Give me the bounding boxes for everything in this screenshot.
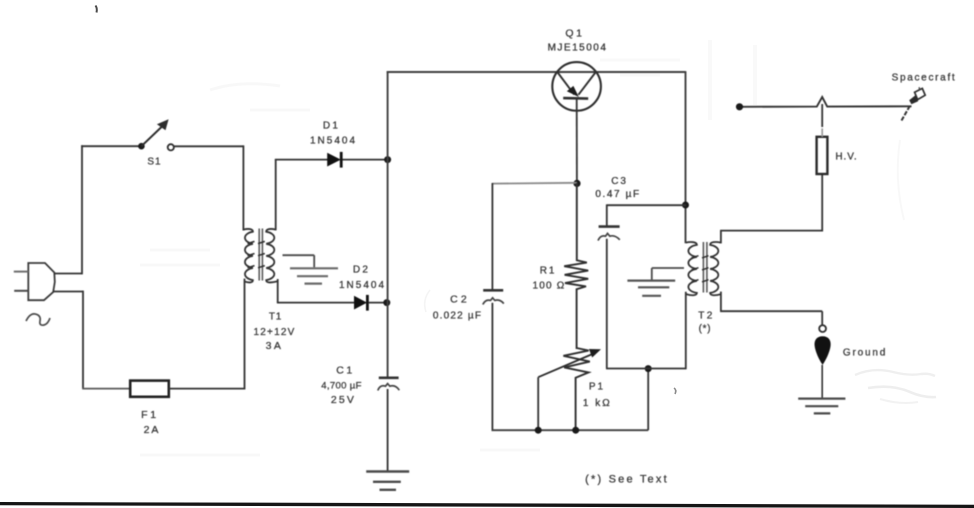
svg-text:25V: 25V: [331, 394, 356, 406]
svg-text:D1: D1: [323, 121, 340, 132]
junction C3 top: [682, 202, 689, 209]
wire base node to C2: [492, 182, 577, 185]
scan noise (decorative): [140, 40, 936, 455]
diode D2: [354, 296, 367, 310]
capacitor C1: [379, 376, 399, 379]
junction wiper-rail: [535, 427, 542, 434]
svg-text:C1: C1: [336, 365, 355, 377]
svg-text:0.022 µF: 0.022 µF: [433, 311, 482, 322]
wire D2 cathode to bus: [369, 302, 388, 304]
capacitor C2: [483, 289, 503, 292]
svg-text:(*): (*): [699, 324, 712, 335]
svg-text:C3: C3: [611, 176, 627, 187]
wire S1 right segment: [174, 145, 244, 147]
wire C2 bottom to rail: [491, 303, 493, 430]
ground at T2 primary: [652, 267, 684, 269]
capacitor C3: [599, 225, 620, 228]
wire lower riser down to fuse rail: [82, 291, 84, 389]
transformer T1 primary winding: [243, 229, 253, 283]
transformer T2 secondary winding: [710, 242, 721, 295]
wire up to HV resistor: [821, 174, 823, 232]
svg-text:H.V.: H.V.: [835, 152, 857, 163]
wire spacecraft line with kink: [740, 97, 912, 107]
svg-text:12+12V: 12+12V: [254, 327, 296, 338]
svg-text:3A: 3A: [266, 340, 284, 352]
wire DC bus vertical: [387, 71, 389, 377]
wire C3 bottom down: [606, 239, 608, 369]
wire HV top lead: [821, 128, 823, 136]
wire T1 secondary top lead to D1: [275, 159, 277, 230]
svg-text:P1: P1: [589, 382, 605, 393]
svg-text:1 kΩ: 1 kΩ: [583, 398, 612, 409]
svg-text:1N5404: 1N5404: [339, 280, 386, 291]
AC tilde symbol: [26, 314, 50, 325]
junction bus-D2: [383, 299, 390, 306]
earth ground symbol: [798, 398, 845, 400]
wire D1 cathode to bus: [343, 159, 389, 161]
svg-text:R1: R1: [540, 266, 556, 277]
junction base node: [573, 180, 580, 187]
resistor HV: [817, 137, 828, 174]
diode D1: [327, 153, 341, 167]
junction left end dot: [736, 103, 743, 110]
transformer T2 primary winding: [686, 242, 697, 295]
wire plug-bottom to lower riser: [53, 291, 83, 293]
svg-text:C2: C2: [450, 294, 470, 306]
svg-text:1N5404: 1N5404: [310, 136, 357, 147]
spacecraft electrode: [902, 105, 911, 121]
svg-text:Spacecraft: Spacecraft: [892, 73, 957, 84]
AC plug P/X1: [28, 263, 55, 300]
potentiometer P1: [563, 348, 589, 430]
wire T2 secondary top lead: [720, 230, 722, 243]
T2 coil cusp marks: [692, 256, 699, 258]
wire S1 left segment: [81, 145, 141, 147]
svg-text:T2: T2: [698, 311, 714, 322]
wire T2 primary return: [606, 368, 686, 370]
wire bottom rail: [492, 429, 649, 431]
wire rail riser right: [647, 368, 649, 430]
switch S1: [138, 143, 145, 150]
transformer T1 core: [258, 229, 260, 281]
wire wiper leg down: [537, 377, 539, 430]
ground below C1: [366, 470, 409, 472]
junction bus-D1: [384, 156, 391, 163]
wire C1 to ground: [387, 389, 389, 471]
wire left riser up to S1: [81, 145, 83, 274]
P1 wiper arrow: [538, 354, 592, 377]
transformer T1 secondary winding: [266, 229, 277, 283]
wire electrode to earth: [821, 365, 823, 398]
plug prong upper: [14, 271, 28, 273]
wire Q1 base lead down: [576, 99, 578, 184]
plug prong lower: [14, 290, 28, 292]
wire T1 secondary bottom lead to D2: [277, 279, 279, 303]
svg-text:0.47 µF: 0.47 µF: [595, 189, 640, 200]
transistor Q1: [552, 62, 601, 111]
resistor R1: [564, 183, 588, 349]
wire C3 top branch: [607, 204, 686, 206]
bottom rule: [0, 504, 974, 507]
wire T2 primary bottom lead: [685, 292, 687, 369]
stray mark near rail: [674, 388, 676, 394]
svg-text:2A: 2A: [144, 424, 161, 436]
svg-text:S1: S1: [147, 157, 161, 168]
ground electrode body: [815, 336, 831, 365]
junction riser-T2 return: [645, 365, 652, 372]
wire plug-top to left riser: [54, 273, 82, 275]
svg-text:4,700 µF: 4,700 µF: [321, 381, 361, 392]
ground electrode circle: [819, 325, 826, 332]
wire fuse left lead: [82, 388, 131, 390]
wire fuse right lead: [169, 388, 245, 390]
wire T1 primary top lead: [242, 145, 244, 230]
svg-text:Q1: Q1: [565, 28, 584, 40]
wire T2 secondary bottom lead: [720, 292, 722, 312]
svg-text:D2: D2: [353, 265, 370, 276]
fuse F1: [130, 381, 169, 397]
svg-text:100 Ω: 100 Ω: [533, 281, 566, 292]
transformer T2 core: [702, 242, 704, 293]
svg-text:F1: F1: [141, 409, 159, 421]
T1 coil cusp marks: [248, 241, 255, 243]
wire riser to T1 primary bottom: [244, 279, 246, 390]
svg-text:T1: T1: [269, 312, 282, 323]
stray scan tick: [96, 6, 97, 13]
svg-text:(*) See Text: (*) See Text: [585, 474, 669, 486]
ground at T1 center tap: [283, 254, 315, 256]
svg-text:MJE15004: MJE15004: [548, 43, 608, 54]
svg-text:Ground: Ground: [843, 348, 887, 359]
wire collector drop: [685, 71, 687, 243]
junction P1-rail: [572, 427, 579, 434]
wire top rail: [387, 71, 686, 73]
